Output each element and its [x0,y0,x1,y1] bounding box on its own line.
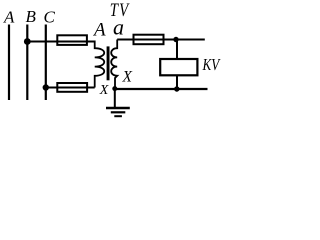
svg-text:a: a [113,14,124,39]
fuse FU2 [57,83,87,92]
relay KV coil [160,59,197,75]
svg-text:KV: KV [202,57,221,75]
bus A [8,25,10,101]
node: secondary wire to relay branch (junction dot) [173,37,178,42]
wire: junction down to relay KV [176,40,178,59]
transformer TV secondary winding [111,40,117,89]
node on bus B (junction dot) [24,38,31,45]
svg-text:A: A [3,8,15,27]
wire: secondary top through fuse FU3 to stub end [117,39,205,41]
wire: bus C to fuse FU2 to primary bottom [46,87,95,89]
svg-text:A: A [92,20,106,41]
svg-text:C: C [44,8,56,27]
bus B [26,25,28,101]
ground [106,89,130,116]
node: relay branch on rail (junction dot) [174,86,179,91]
transformer TV primary winding [95,41,105,88]
node on bus C (junction dot) [43,84,49,90]
wire: bottom rail [115,88,208,90]
wire: bus B to fuse FU1 to primary top [27,40,94,42]
transformer TV core [107,46,110,80]
svg-text:X: X [99,83,109,98]
wire: relay KV bottom to ground rail [176,76,178,89]
fuse FU3 [134,35,164,45]
fuse FU1 [57,35,87,45]
svg-text:B: B [26,7,37,26]
svg-text:X: X [122,69,133,86]
bus C [45,25,47,101]
node: secondary bottom on rail (junction dot) [112,86,117,91]
